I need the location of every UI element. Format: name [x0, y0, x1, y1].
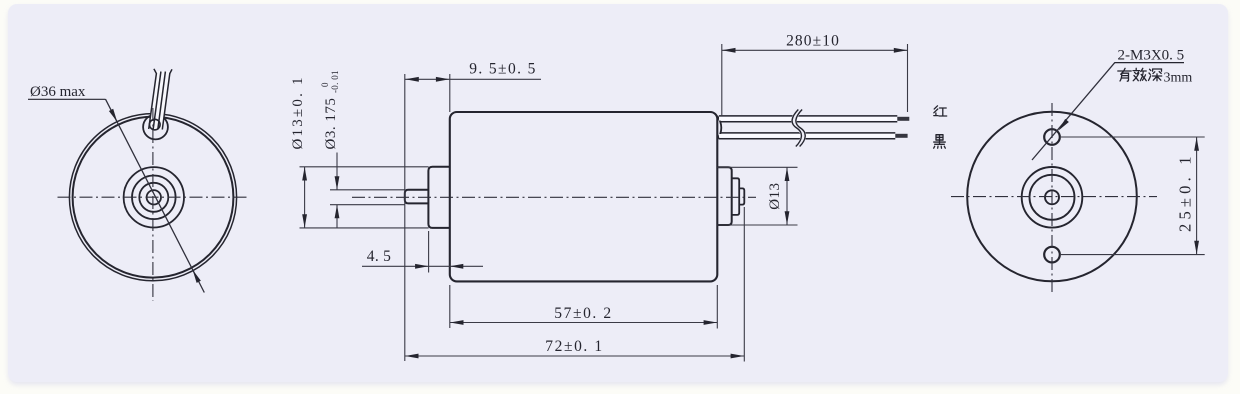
svg-text:Ø13±0. 1: Ø13±0. 1 [290, 75, 306, 149]
svg-text:72±0. 1: 72±0. 1 [545, 338, 603, 355]
svg-text:Ø3. 175: Ø3. 175 [323, 98, 339, 150]
svg-text:-0. 01: -0. 01 [330, 70, 340, 93]
svg-text:25±0. 1: 25±0. 1 [1175, 152, 1194, 232]
svg-text:9. 5±0. 5: 9. 5±0. 5 [469, 60, 537, 77]
svg-text:4. 5: 4. 5 [367, 248, 391, 265]
svg-text:Ø13: Ø13 [767, 182, 783, 209]
svg-text:0: 0 [320, 82, 330, 87]
svg-text:2-M3X0. 5: 2-M3X0. 5 [1118, 48, 1185, 64]
svg-text:280±10: 280±10 [786, 32, 840, 49]
svg-text:57±0. 2: 57±0. 2 [554, 305, 612, 322]
svg-text:Ø36 max: Ø36 max [30, 84, 86, 100]
svg-text:3mm: 3mm [1164, 71, 1193, 86]
